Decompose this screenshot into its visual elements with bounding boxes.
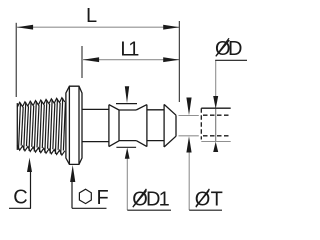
svg-text:C: C — [13, 186, 27, 208]
svg-text:ØD: ØD — [215, 38, 243, 60]
svg-text:F: F — [97, 187, 109, 209]
svg-text:ØT: ØT — [195, 189, 223, 211]
svg-text:L1: L1 — [120, 39, 139, 61]
svg-text:L: L — [86, 5, 97, 27]
